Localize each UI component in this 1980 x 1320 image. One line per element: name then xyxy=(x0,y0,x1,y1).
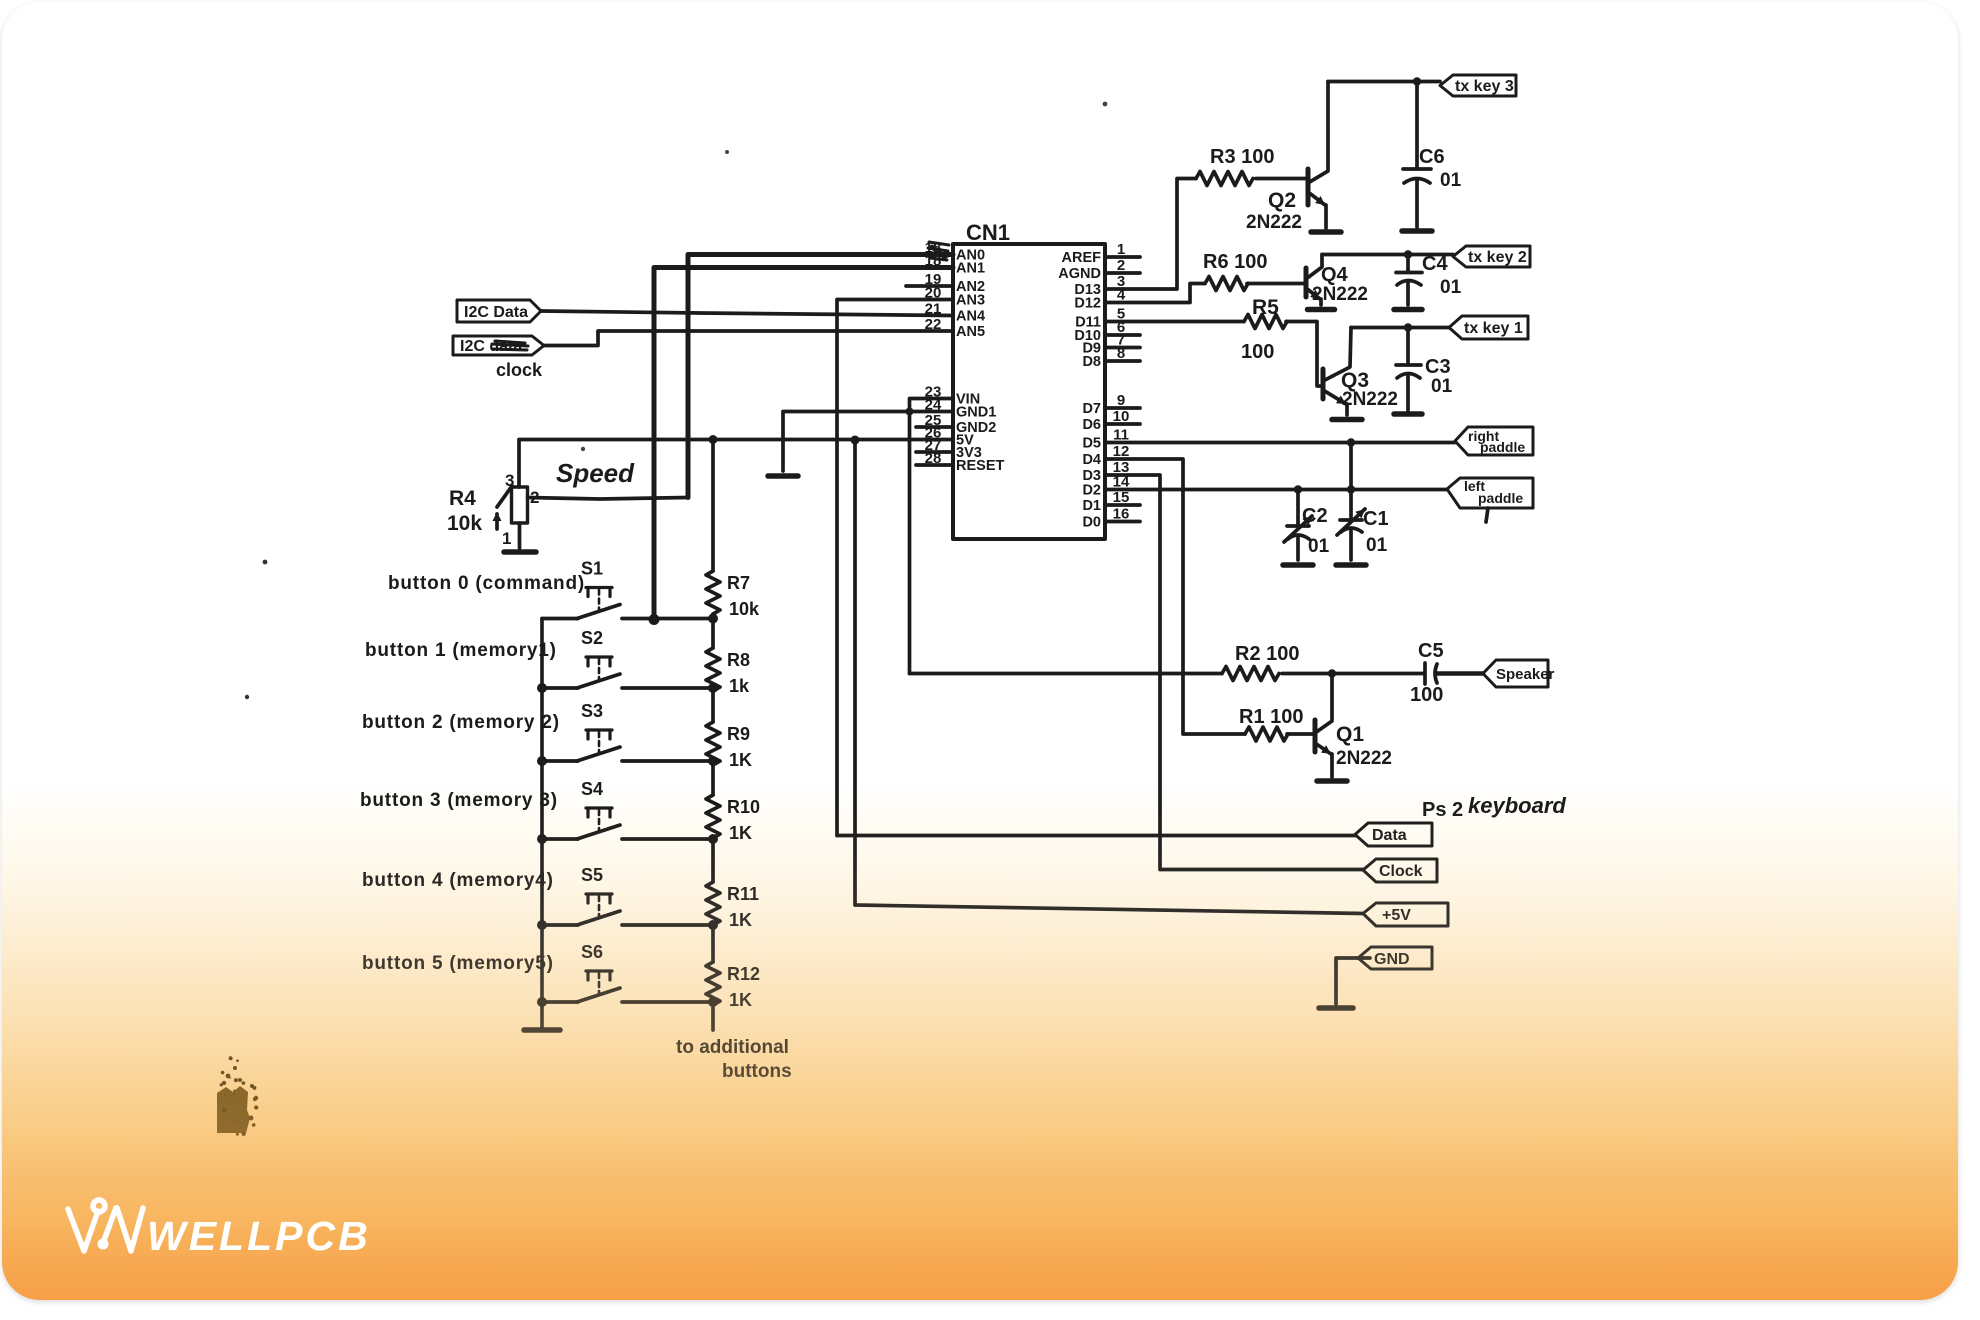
wire D5 to right paddle xyxy=(1105,441,1455,445)
potentiometer R4 bottom lead xyxy=(518,523,522,548)
svg-text:clock: clock xyxy=(496,360,543,380)
wire row S4 left xyxy=(542,837,578,841)
resistor R10 lead xyxy=(711,765,715,795)
pin 7 D9 stub/label xyxy=(1105,346,1140,350)
junction VIN vertical at GND1 line xyxy=(906,408,914,416)
svg-text:AN4: AN4 xyxy=(956,309,985,325)
svg-text:button 1 (memory1): button 1 (memory1) xyxy=(365,640,557,661)
resistor R6 xyxy=(1205,277,1248,291)
svg-text:buttons: buttons xyxy=(722,1061,792,1082)
wire 5V rail to pot xyxy=(519,440,953,488)
pin 9 D7 stub/label xyxy=(1105,406,1140,410)
capacitor C5 plates xyxy=(1425,663,1437,684)
ground C1 xyxy=(1336,562,1366,568)
svg-text:2N222: 2N222 xyxy=(1246,212,1302,233)
stray ink dot 4 xyxy=(263,560,268,565)
svg-text:15: 15 xyxy=(1113,489,1130,506)
transistor Q3 collector xyxy=(1323,328,1351,382)
switch S5 xyxy=(586,894,612,903)
svg-text:C2: C2 xyxy=(1302,505,1328,527)
svg-text:tx key 2: tx key 2 xyxy=(1468,249,1527,266)
junction 5V / +5V bus xyxy=(851,436,860,445)
resistor R1 xyxy=(1245,727,1288,741)
tag left paddle xyxy=(1447,478,1533,508)
svg-text:C6: C6 xyxy=(1419,146,1445,168)
scribble over pin 17 number xyxy=(928,242,949,260)
svg-text:R11: R11 xyxy=(727,884,759,904)
svg-text:R3 100: R3 100 xyxy=(1210,146,1275,168)
junction resistor chain row S6 xyxy=(708,997,718,1007)
resistor R10 xyxy=(706,795,720,838)
svg-text:+5V: +5V xyxy=(1382,907,1411,924)
wire R5 to Q3 base xyxy=(1286,322,1323,387)
svg-text:CN1: CN1 xyxy=(966,220,1010,245)
junction C2 top xyxy=(1294,485,1302,493)
resistor R11 lead xyxy=(711,838,715,882)
svg-text:01: 01 xyxy=(1440,170,1462,191)
switch S1 lever xyxy=(577,605,620,619)
pin 6 D10 stub/label xyxy=(1105,333,1140,337)
svg-text:2N222: 2N222 xyxy=(1312,284,1368,305)
capacitor C6 lower lead xyxy=(1415,181,1419,227)
svg-text:2: 2 xyxy=(1117,257,1125,274)
capacitor C1 plates xyxy=(1340,520,1362,532)
wire I2C clock to AN5 xyxy=(544,331,953,346)
wire +5V bus down xyxy=(855,440,1363,914)
svg-text:1k: 1k xyxy=(729,676,750,696)
transistor Q1 collector xyxy=(1315,674,1332,734)
scan stain speckles xyxy=(224,1094,226,1096)
wire resistor chain tail xyxy=(711,1005,715,1030)
switch S1 xyxy=(586,588,612,597)
tag right paddle xyxy=(1455,427,1533,455)
svg-text:10k: 10k xyxy=(447,512,482,535)
capacitor C3 plates xyxy=(1396,365,1421,378)
resistor R7 lead xyxy=(711,440,715,572)
switch S5 lever xyxy=(577,911,620,925)
transistor Q2 base bar xyxy=(1306,169,1311,205)
capacitor C4 lead xyxy=(1406,255,1410,306)
wire row S6 left xyxy=(542,1000,578,1004)
potentiometer R4 body xyxy=(512,487,528,523)
pin 25 GND2 stub/label xyxy=(916,425,953,429)
svg-text:RESET: RESET xyxy=(956,458,1004,474)
svg-text:1K: 1K xyxy=(729,823,752,843)
ground Q3 xyxy=(1332,417,1362,423)
svg-text:WELLPCB: WELLPCB xyxy=(147,1213,371,1259)
wire R3 to Q2 base xyxy=(1256,177,1308,181)
ground Q4 xyxy=(1308,307,1335,313)
svg-text:Data: Data xyxy=(1372,827,1407,844)
capacitor C1 arrow xyxy=(1337,509,1365,535)
svg-text:3: 3 xyxy=(505,471,514,490)
wire R2 line from VIN vertical xyxy=(910,672,1223,676)
svg-text:paddle: paddle xyxy=(1480,439,1525,455)
svg-text:button 5 (memory5): button 5 (memory5) xyxy=(362,953,554,974)
svg-text:01: 01 xyxy=(1431,376,1453,397)
resistor R7 xyxy=(706,571,720,614)
wire D11 to R5 xyxy=(1105,320,1244,324)
svg-text:GND: GND xyxy=(1374,951,1410,968)
svg-text:D12: D12 xyxy=(1074,296,1101,312)
resistor R9 lead xyxy=(711,691,715,722)
svg-text:28: 28 xyxy=(925,450,942,467)
svg-text:100: 100 xyxy=(1241,341,1274,363)
tag tx key 2 xyxy=(1453,246,1530,267)
potentiometer R4 wiper to AN0 bus xyxy=(528,498,689,500)
potentiometer R4 terminal 3 stroke xyxy=(497,486,512,507)
svg-text:D1: D1 xyxy=(1082,498,1101,514)
tag Data xyxy=(1355,823,1432,846)
svg-text:16: 16 xyxy=(1113,506,1130,523)
junction C1 crossing left paddle line xyxy=(1347,485,1355,493)
switch S2 xyxy=(586,657,612,666)
junction resistor chain row S3 xyxy=(708,756,718,766)
resistor R8 lead xyxy=(711,614,715,648)
ground C2 xyxy=(1283,562,1313,568)
svg-text:Q2: Q2 xyxy=(1268,189,1296,212)
svg-text:AN3: AN3 xyxy=(956,293,985,309)
junction bus row S4 xyxy=(537,834,547,844)
junction AN1-bus / S1 row xyxy=(649,614,660,625)
junction bus row S2 xyxy=(537,683,547,693)
wire row S2 left xyxy=(542,686,578,690)
wire tx key 1 line xyxy=(1351,326,1449,330)
svg-text:C5: C5 xyxy=(1418,640,1444,662)
wire D4 to R1 xyxy=(1105,459,1245,734)
capacitor C2 plates xyxy=(1287,526,1309,539)
resistor R8 xyxy=(706,648,720,691)
wire AN0 bus to speed wiper xyxy=(688,255,953,498)
wire R2 to C5 xyxy=(1282,672,1424,676)
capacitor C4 plates xyxy=(1396,273,1422,286)
svg-text:R7: R7 xyxy=(727,573,750,593)
junction Q1 collector xyxy=(1328,669,1336,677)
transistor Q1 emitter lead xyxy=(1330,754,1334,777)
tag Speaker xyxy=(1483,660,1548,687)
resistor R9 xyxy=(706,722,720,765)
wire VIN to R2 line xyxy=(910,399,954,674)
switch S3 lever xyxy=(577,747,620,761)
svg-text:tx key 1: tx key 1 xyxy=(1464,320,1523,337)
svg-text:1: 1 xyxy=(1117,241,1125,258)
svg-text:Q4: Q4 xyxy=(1321,264,1349,286)
svg-text:R9: R9 xyxy=(727,724,750,744)
svg-text:R1 100: R1 100 xyxy=(1239,706,1304,728)
svg-text:button 2 (memory 2): button 2 (memory 2) xyxy=(362,712,560,733)
svg-text:C1: C1 xyxy=(1363,508,1389,530)
svg-text:D7: D7 xyxy=(1082,401,1101,417)
svg-text:AN5: AN5 xyxy=(956,324,985,340)
junction bus row S6 xyxy=(537,997,547,1007)
pin 27 3V3 stub/label xyxy=(916,450,953,454)
junction resistor chain row S5 xyxy=(708,920,718,930)
capacitor C3 lead xyxy=(1406,328,1410,411)
junction bus row S3 xyxy=(537,756,547,766)
svg-text:I2C Data: I2C Data xyxy=(464,304,528,321)
svg-text:D6: D6 xyxy=(1082,417,1101,433)
transistor Q4 collector xyxy=(1306,255,1322,280)
tag left paddle pen tail xyxy=(1486,508,1488,522)
svg-text:S2: S2 xyxy=(581,628,603,648)
svg-text:9: 9 xyxy=(1117,392,1125,409)
pin 2 AGND stub/label xyxy=(1105,271,1140,275)
svg-text:1K: 1K xyxy=(729,750,752,770)
resistor R12 xyxy=(706,962,720,1005)
resistor R5 xyxy=(1244,315,1287,329)
svg-text:2: 2 xyxy=(530,488,539,507)
transistor Q3 emitter lead xyxy=(1345,404,1349,415)
svg-text:button 3 (memory 3): button 3 (memory 3) xyxy=(360,790,558,811)
wire row S3 right xyxy=(622,759,713,763)
svg-text:button 0 (command): button 0 (command) xyxy=(388,573,585,594)
svg-text:10k: 10k xyxy=(729,599,760,619)
svg-text:S6: S6 xyxy=(581,942,603,962)
pin 28 RESET stub/label xyxy=(916,463,953,467)
pin 15 D1 stub/label xyxy=(1105,503,1140,507)
transistor Q4 emitter lead xyxy=(1319,299,1323,305)
switch S6 xyxy=(586,971,612,980)
svg-text:paddle: paddle xyxy=(1478,490,1523,506)
svg-text:D8: D8 xyxy=(1082,354,1101,370)
ground C4 xyxy=(1394,307,1422,313)
transistor Q4 base bar xyxy=(1304,268,1309,297)
ground GND1 xyxy=(768,473,798,479)
svg-text:2N222: 2N222 xyxy=(1342,389,1398,410)
wire tx key 2 line xyxy=(1322,253,1453,257)
svg-text:D0: D0 xyxy=(1082,515,1101,531)
transistor Q3 base bar xyxy=(1321,369,1326,399)
logo W mark xyxy=(68,1200,143,1251)
wire D12 to R6 xyxy=(1105,284,1205,303)
wire GND tag to ground xyxy=(1336,958,1370,1004)
junction C6 top xyxy=(1413,77,1421,85)
WellPCB logo xyxy=(54,1192,454,1282)
wire row S5 right xyxy=(622,923,713,927)
transistor Q2 emitter xyxy=(1308,192,1325,205)
svg-text:Q1: Q1 xyxy=(1336,723,1364,746)
ground button bus xyxy=(524,1027,560,1033)
junction bus row S5 xyxy=(537,920,547,930)
svg-text:Ps 2: Ps 2 xyxy=(1422,799,1463,821)
svg-text:10: 10 xyxy=(1113,408,1130,425)
tag tx key 3 xyxy=(1440,75,1516,96)
IC CN1 body xyxy=(953,244,1105,539)
wire D2 to left paddle xyxy=(1105,488,1447,492)
svg-text:1: 1 xyxy=(502,529,511,548)
resistor R2 xyxy=(1222,667,1279,681)
svg-text:D4: D4 xyxy=(1082,452,1101,468)
stray ink dot 5 xyxy=(245,695,249,699)
junction C1 top xyxy=(1347,438,1355,446)
junction resistor chain row S2 xyxy=(708,683,718,693)
pin 8 D8 stub/label xyxy=(1105,359,1140,363)
svg-text:D5: D5 xyxy=(1082,436,1101,452)
svg-text:S3: S3 xyxy=(581,701,603,721)
switch S4 lever xyxy=(577,825,620,839)
wire row S5 left xyxy=(542,923,578,927)
svg-text:R4: R4 xyxy=(449,487,476,510)
svg-text:R6 100: R6 100 xyxy=(1203,251,1268,273)
junction 5V / R7 top xyxy=(709,435,718,444)
wire row S3 left xyxy=(542,759,578,763)
tag tx key 1 xyxy=(1449,316,1528,339)
svg-text:AREF: AREF xyxy=(1062,250,1102,266)
wire Data line xyxy=(837,834,1355,838)
tag I2C Data xyxy=(457,300,541,322)
pin 10 D6 stub/label xyxy=(1105,422,1140,426)
wire D3 to Clock xyxy=(1105,475,1363,870)
junction resistor chain row S4 xyxy=(708,834,718,844)
switch S4 xyxy=(586,808,612,817)
ground Q2 xyxy=(1311,229,1341,235)
wire AN3 to Data vertical xyxy=(837,300,953,836)
svg-text:R10: R10 xyxy=(727,797,760,817)
svg-text:R2 100: R2 100 xyxy=(1235,643,1300,665)
switch S2 lever xyxy=(577,674,620,688)
transistor Q1 base bar xyxy=(1313,720,1318,752)
svg-text:S4: S4 xyxy=(581,779,603,799)
capacitor C2 arrow xyxy=(1284,516,1312,542)
svg-text:AGND: AGND xyxy=(1058,266,1101,282)
stray ink dot 3 xyxy=(725,150,729,154)
svg-text:01: 01 xyxy=(1308,536,1330,557)
wire row S1 left xyxy=(542,617,578,621)
transistor Q2 emitter lead xyxy=(1324,205,1328,228)
wire C5 to speaker tag xyxy=(1437,671,1483,676)
svg-text:R8: R8 xyxy=(727,650,750,670)
ground Q1 xyxy=(1317,778,1347,784)
capacitor C6 lead xyxy=(1415,82,1419,169)
wire row S2 right xyxy=(622,686,713,690)
svg-text:R5: R5 xyxy=(1252,296,1279,319)
svg-text:AN1: AN1 xyxy=(956,261,985,277)
scribble over clock tag text xyxy=(492,341,528,350)
svg-text:D2: D2 xyxy=(1082,483,1101,499)
tag Clock xyxy=(1363,859,1437,882)
stray ink dot 1 xyxy=(581,447,585,451)
capacitor C6 plates xyxy=(1403,169,1431,183)
capacitor C1 lead xyxy=(1349,443,1353,561)
transistor Q2 collector xyxy=(1308,82,1328,184)
wire AN1 bus down to S1 row xyxy=(654,268,953,619)
svg-text:C4: C4 xyxy=(1422,253,1448,275)
ground C6 xyxy=(1402,228,1432,234)
svg-text:8: 8 xyxy=(1117,345,1125,362)
svg-text:keyboard: keyboard xyxy=(1468,793,1566,818)
tag GND xyxy=(1358,947,1432,969)
switch S3 xyxy=(586,730,612,739)
svg-text:R12: R12 xyxy=(727,964,760,984)
ground GND tag xyxy=(1319,1005,1353,1011)
svg-text:tx key 3: tx key 3 xyxy=(1455,78,1514,95)
wire R6 to Q4 base xyxy=(1247,282,1306,286)
pin 19 AN2 stub/label xyxy=(906,284,953,288)
svg-text:Speaker: Speaker xyxy=(1496,666,1555,683)
pin 1 AREF stub/label xyxy=(1105,255,1140,259)
transistor Q4 emitter xyxy=(1306,288,1320,299)
pin 16 D0 stub/label xyxy=(1105,520,1140,524)
svg-text:C3: C3 xyxy=(1425,356,1451,378)
resistor R11 xyxy=(706,882,720,925)
wire GND1 to ground xyxy=(783,412,953,472)
potentiometer R4 arrow xyxy=(495,514,499,529)
wire I2C Data to AN4 xyxy=(541,311,953,316)
svg-text:button 4 (memory4): button 4 (memory4) xyxy=(362,870,554,891)
svg-text:Clock: Clock xyxy=(1379,863,1423,880)
resistor R12 lead xyxy=(711,925,715,962)
transistor Q1 emitter xyxy=(1315,743,1331,754)
switch S6 lever xyxy=(577,988,620,1002)
wire left button bus xyxy=(540,619,544,1028)
wire row S4 right xyxy=(622,837,713,841)
wire R1 to Q1 base xyxy=(1287,732,1315,736)
svg-text:S5: S5 xyxy=(581,865,603,885)
wire row S6 right xyxy=(622,1000,713,1004)
svg-text:1K: 1K xyxy=(729,910,752,930)
junction resistor chain row S1 xyxy=(708,614,718,624)
wire tx key 3 line xyxy=(1328,80,1440,84)
svg-text:01: 01 xyxy=(1440,277,1462,298)
capacitor C2 lead xyxy=(1296,490,1300,561)
ground C3 xyxy=(1394,411,1422,417)
tag +5V xyxy=(1363,903,1448,926)
transistor Q3 emitter xyxy=(1323,390,1346,404)
tag I2C clock (scribbled) xyxy=(453,336,544,355)
svg-text:2N222: 2N222 xyxy=(1336,748,1392,769)
svg-text:1K: 1K xyxy=(729,990,752,1010)
junction C3 top xyxy=(1404,323,1412,331)
scan stain blob xyxy=(217,1086,250,1133)
resistor R3 xyxy=(1196,172,1253,186)
wire row S1 right xyxy=(622,617,713,621)
wire D13 to R3 xyxy=(1105,179,1196,290)
svg-text:100: 100 xyxy=(1410,684,1443,706)
stray ink dot 2 xyxy=(1103,102,1108,107)
ground R4 xyxy=(504,549,536,555)
junction C4 top xyxy=(1404,250,1412,258)
svg-text:to additional: to additional xyxy=(676,1037,789,1058)
svg-text:Speed: Speed xyxy=(556,458,635,488)
svg-text:01: 01 xyxy=(1366,535,1388,556)
svg-text:GND1: GND1 xyxy=(956,405,996,421)
